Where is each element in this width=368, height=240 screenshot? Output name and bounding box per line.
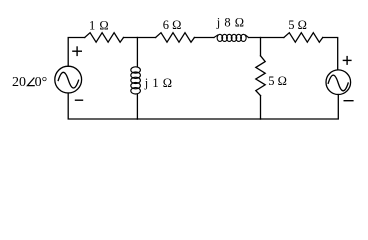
wire R1 to R2 (through node A) xyxy=(124,37,156,39)
resistor R2 6Ω xyxy=(156,33,195,43)
wire R4 bottom to bottom wire xyxy=(260,96,262,119)
minus sign of V2 xyxy=(344,100,353,102)
bottom wire A to B xyxy=(137,118,260,120)
wire L1 bottom to bottom wire xyxy=(136,94,138,119)
wire top-left segment xyxy=(68,38,85,67)
svg-text:20: 20 xyxy=(12,75,26,90)
resistor R1 1Ω xyxy=(85,33,124,43)
angle symbol of source label xyxy=(27,78,34,86)
inductor L2 j8Ω xyxy=(214,34,249,41)
minus sign of V1 xyxy=(76,99,83,101)
resistor R3 5Ω (top) xyxy=(284,33,323,43)
sine wave of V2 xyxy=(328,75,348,91)
wire R2 to L2 xyxy=(194,37,214,39)
inductor L1 j1Ω xyxy=(131,67,141,94)
plus sign of V1 xyxy=(73,47,81,55)
svg-text:5 Ω: 5 Ω xyxy=(268,74,287,88)
voltage source V1 20∠0° xyxy=(55,66,82,93)
wire V1 bottom to bottom-left corner xyxy=(68,93,137,119)
plus sign of V2 xyxy=(343,57,351,65)
svg-text:j 1 Ω: j 1 Ω xyxy=(144,76,172,90)
svg-text:5 Ω: 5 Ω xyxy=(288,18,307,32)
svg-text:1 Ω: 1 Ω xyxy=(89,19,109,33)
voltage source V2 xyxy=(326,70,351,95)
wire L2 to R3 (through node B) xyxy=(249,37,284,39)
bottom wire B to right corner xyxy=(261,95,339,120)
node B branch wire down xyxy=(260,38,262,56)
node A branch wire down xyxy=(136,38,138,67)
svg-text:0°: 0° xyxy=(35,75,48,90)
svg-text:6 Ω: 6 Ω xyxy=(163,18,182,32)
wire R3 to top-right corner xyxy=(323,38,338,70)
svg-text:j 8 Ω: j 8 Ω xyxy=(216,15,244,29)
resistor R4 5Ω (vertical) xyxy=(256,56,265,96)
sine wave of V1 xyxy=(58,72,78,88)
